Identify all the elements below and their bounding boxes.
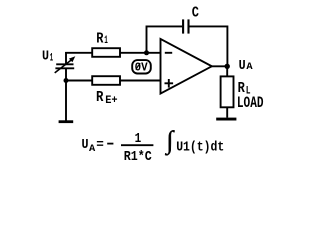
svg-text:E+: E+ <box>105 95 118 107</box>
svg-text:U: U <box>42 49 49 65</box>
op-amp U1 triangle <box>161 39 212 94</box>
formula fraction bar <box>121 144 153 146</box>
node UA dot <box>225 64 230 69</box>
svg-text:R: R <box>96 30 103 47</box>
svg-text:A: A <box>89 143 96 155</box>
svg-text:U: U <box>82 137 89 153</box>
resistor RL (load) <box>221 76 234 107</box>
svg-text:U1(t)dt: U1(t)dt <box>176 139 224 155</box>
0V virtual-ground label bubble <box>132 60 151 73</box>
plus sign inside op-amp <box>165 82 174 84</box>
svg-text:LOAD: LOAD <box>237 94 264 112</box>
source U1 plates <box>56 63 73 65</box>
wire: U1 node to R1 left (inverting input row) <box>65 52 92 54</box>
svg-text:1: 1 <box>104 35 108 47</box>
capacitor C plates <box>182 19 184 33</box>
formula minus <box>107 143 113 145</box>
source U1 variable arrow <box>55 59 72 73</box>
wire: RE+ right to op-amp plus input <box>120 80 161 82</box>
wire: RL bottom to ground <box>226 107 228 117</box>
svg-text:R1*C: R1*C <box>124 150 152 165</box>
minus sign inside op-amp <box>165 52 172 54</box>
junction dot at non-inverting branch <box>64 78 69 83</box>
svg-text:A: A <box>246 61 253 73</box>
ground (right) <box>216 118 236 121</box>
source U1 column wire upper <box>65 52 67 64</box>
wire: feedback top to output column <box>190 26 228 66</box>
resistor RE+ <box>92 76 120 85</box>
wire: node to RL <box>226 66 228 76</box>
svg-text:U: U <box>239 58 246 74</box>
source U1 column wire lower <box>65 69 67 121</box>
formula: UA = - 1/(R1*C) integral U1(t)dt <box>82 126 225 165</box>
wire: node to RE+ left (non-inverting row) <box>65 80 92 82</box>
resistor R1 <box>92 48 120 57</box>
svg-text:R: R <box>96 89 103 106</box>
svg-text:1: 1 <box>50 52 54 64</box>
node junction dot (feedback tap) <box>144 50 149 55</box>
wire: R1 right to op-amp minus input <box>120 52 161 54</box>
wire: feedback riser <box>147 26 183 52</box>
svg-text:C: C <box>192 5 199 22</box>
wire: op-amp output <box>212 65 229 67</box>
ground (left) <box>59 120 74 123</box>
svg-text:=: = <box>96 137 104 152</box>
